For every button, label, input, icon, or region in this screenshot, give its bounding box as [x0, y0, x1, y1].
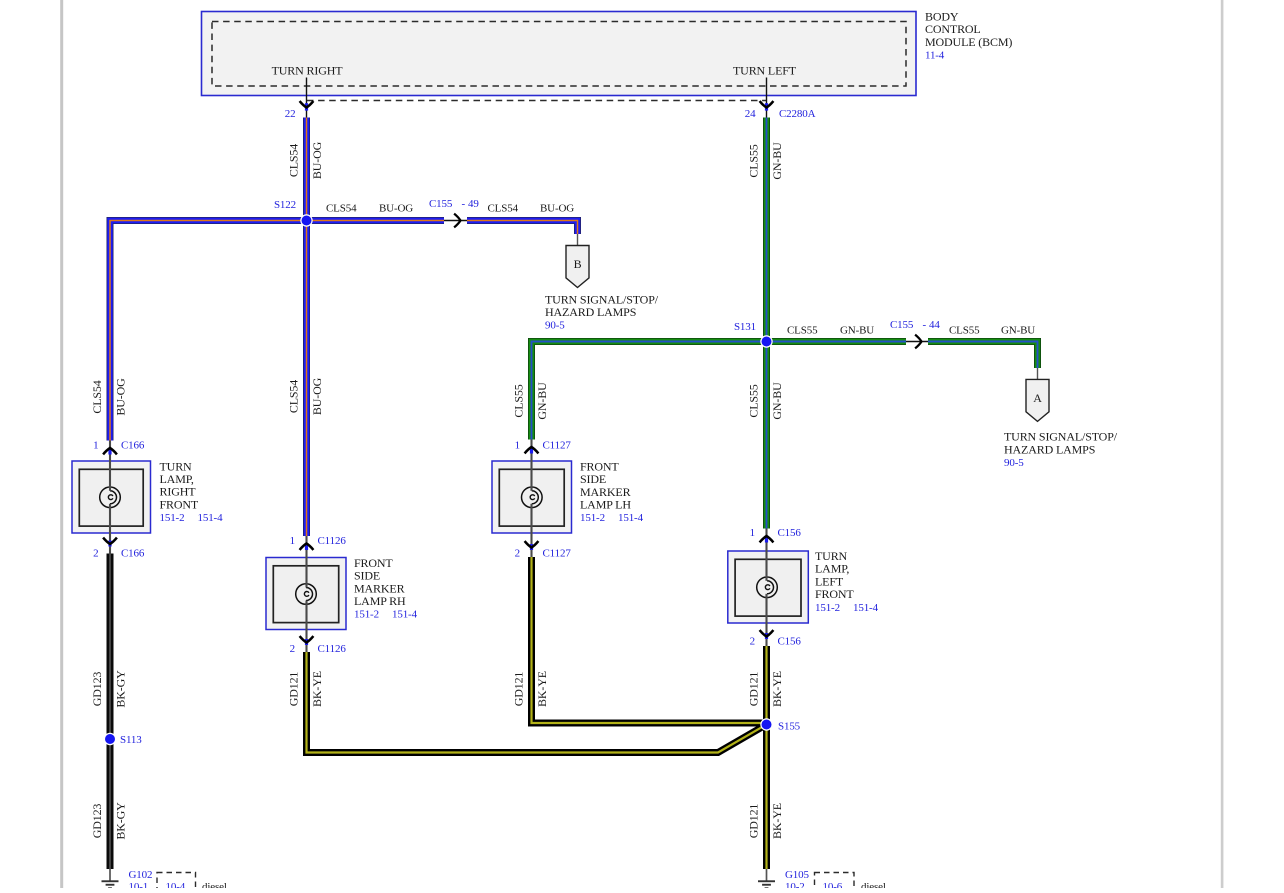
svg-text:1: 1	[290, 535, 295, 547]
svg-text:BU-OG: BU-OG	[379, 203, 413, 215]
svg-text:LAMP RH: LAMP RH	[354, 594, 406, 608]
svg-text:2: 2	[290, 643, 295, 655]
svg-text:10-2: 10-2	[785, 881, 805, 888]
svg-text:CLS54: CLS54	[90, 380, 104, 413]
svg-text:CLS55: CLS55	[949, 325, 980, 337]
svg-text:CONTROL: CONTROL	[925, 22, 981, 36]
svg-text:GD121: GD121	[512, 672, 526, 707]
svg-text:A: A	[1033, 391, 1042, 405]
svg-text:TURN LEFT: TURN LEFT	[733, 64, 797, 78]
svg-text:S155: S155	[778, 721, 801, 733]
svg-text:HAZARD LAMPS: HAZARD LAMPS	[545, 305, 636, 319]
svg-text:GD121: GD121	[747, 804, 761, 839]
svg-text:GD123: GD123	[90, 672, 104, 707]
svg-text:C166: C166	[121, 440, 145, 452]
svg-text:BK-GY: BK-GY	[114, 670, 128, 708]
svg-text:BU-OG: BU-OG	[310, 141, 324, 179]
svg-text:11-4: 11-4	[925, 50, 945, 62]
svg-text:CLS54: CLS54	[326, 203, 357, 215]
svg-text:FRONT: FRONT	[160, 497, 199, 511]
svg-text:2: 2	[93, 548, 98, 560]
svg-text:BK-YE: BK-YE	[770, 671, 784, 707]
svg-text:CLS54: CLS54	[287, 144, 301, 177]
svg-text:GD123: GD123	[90, 804, 104, 839]
svg-text:CLS55: CLS55	[747, 144, 761, 177]
svg-text:44: 44	[929, 319, 940, 331]
svg-text:151-4: 151-4	[392, 609, 418, 621]
svg-text:1: 1	[93, 440, 98, 452]
svg-text:90-5: 90-5	[545, 320, 565, 332]
svg-text:GD121: GD121	[287, 672, 301, 707]
svg-text:BU-OG: BU-OG	[114, 378, 128, 416]
svg-text:GN-BU: GN-BU	[770, 382, 784, 420]
svg-text:C1127: C1127	[543, 440, 572, 452]
svg-text:49: 49	[468, 198, 479, 210]
svg-text:151-2: 151-2	[815, 602, 840, 614]
svg-text:G105: G105	[785, 869, 809, 881]
svg-text:HAZARD LAMPS: HAZARD LAMPS	[1004, 442, 1095, 456]
svg-text:22: 22	[285, 108, 296, 120]
svg-text:C166: C166	[121, 548, 145, 560]
svg-text:151-2: 151-2	[354, 609, 379, 621]
svg-text:1: 1	[750, 527, 755, 539]
svg-text:2: 2	[515, 548, 520, 560]
svg-text:2: 2	[750, 636, 755, 648]
svg-text:BK-YE: BK-YE	[770, 803, 784, 839]
svg-text:GN-BU: GN-BU	[840, 325, 874, 337]
svg-text:151-4: 151-4	[853, 602, 879, 614]
svg-text:C2280A: C2280A	[779, 108, 816, 120]
svg-text:CLS55: CLS55	[747, 384, 761, 417]
svg-text:-: -	[462, 198, 466, 210]
svg-text:MODULE (BCM): MODULE (BCM)	[925, 35, 1012, 49]
svg-text:S113: S113	[120, 734, 142, 746]
svg-text:C155: C155	[890, 319, 914, 331]
svg-text:CLS54: CLS54	[287, 380, 301, 413]
svg-text:24: 24	[745, 108, 756, 120]
svg-text:CLS55: CLS55	[512, 384, 526, 417]
svg-text:diesel: diesel	[861, 881, 886, 888]
svg-text:151-4: 151-4	[198, 512, 224, 524]
svg-text:CLS54: CLS54	[488, 203, 519, 215]
svg-text:C155: C155	[429, 198, 453, 210]
svg-text:G102: G102	[129, 869, 153, 881]
svg-text:C156: C156	[778, 636, 802, 648]
svg-text:BK-YE: BK-YE	[310, 671, 324, 707]
svg-text:C1127: C1127	[543, 548, 572, 560]
svg-text:BODY: BODY	[925, 9, 959, 23]
svg-text:151-2: 151-2	[160, 512, 185, 524]
svg-text:B: B	[574, 257, 582, 271]
svg-text:FRONT: FRONT	[815, 587, 854, 601]
svg-text:LAMP LH: LAMP LH	[580, 498, 631, 512]
svg-text:C1126: C1126	[318, 643, 347, 655]
svg-text:C156: C156	[778, 527, 802, 539]
svg-text:GN-BU: GN-BU	[770, 142, 784, 180]
svg-text:-: -	[923, 319, 927, 331]
svg-text:151-4: 151-4	[618, 512, 644, 524]
svg-text:GN-BU: GN-BU	[535, 382, 549, 420]
svg-text:GN-BU: GN-BU	[1001, 325, 1035, 337]
svg-text:90-5: 90-5	[1004, 457, 1024, 469]
svg-text:S122: S122	[274, 199, 296, 211]
svg-text:BK-YE: BK-YE	[535, 671, 549, 707]
svg-text:diesel: diesel	[202, 881, 227, 888]
svg-text:BU-OG: BU-OG	[540, 203, 574, 215]
svg-text:10-1: 10-1	[129, 881, 149, 888]
svg-text:GD121: GD121	[747, 672, 761, 707]
svg-text:1: 1	[515, 440, 520, 452]
svg-text:151-2: 151-2	[580, 512, 605, 524]
svg-text:TURN RIGHT: TURN RIGHT	[272, 64, 344, 78]
svg-text:C1126: C1126	[318, 535, 347, 547]
svg-text:BK-GY: BK-GY	[114, 802, 128, 840]
svg-text:10-6: 10-6	[823, 881, 843, 888]
svg-text:CLS55: CLS55	[787, 325, 818, 337]
svg-text:S131: S131	[734, 321, 756, 333]
svg-text:BU-OG: BU-OG	[310, 377, 324, 415]
svg-text:10-4: 10-4	[166, 881, 186, 888]
